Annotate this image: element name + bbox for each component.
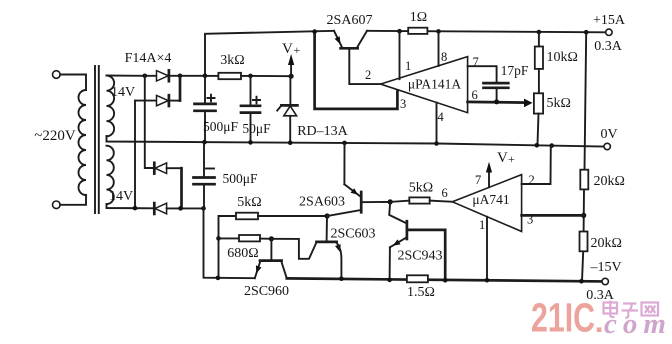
wire U1 pin6 output to pot wiper (468, 101, 526, 104)
svg-text:5kΩ: 5kΩ (547, 96, 571, 111)
top bus right section (367, 31, 606, 33)
svg-text:8: 8 (441, 50, 447, 64)
wire U2 pin2 to 0V (522, 146, 551, 184)
capacitor 500uF lower (203, 142, 205, 177)
junction pot bottom on 0V (535, 143, 540, 148)
junction -V rail corner (201, 206, 206, 211)
svg-text:0.3A: 0.3A (594, 39, 623, 54)
junction +V node (203, 74, 208, 79)
svg-text:1Ω: 1Ω (410, 10, 427, 25)
svg-text:500μF: 500μF (223, 171, 258, 186)
junction riser on bus (216, 276, 221, 281)
wire U2 pin4 to -15 bus (486, 217, 488, 280)
svg-text:–15V: –15V (589, 260, 621, 275)
transformer T1 primary winding (79, 90, 87, 195)
junction 500uF bottom on 0V (202, 140, 207, 145)
svg-text:1.5Ω: 1.5Ω (407, 285, 435, 300)
resistor 10k (538, 32, 540, 46)
junction node X (388, 199, 393, 204)
svg-text:2SC943: 2SC943 (397, 249, 442, 264)
svg-text:7: 7 (475, 173, 481, 187)
transistor Q4 2SC603 (326, 216, 328, 241)
wire D4 to -V node (167, 207, 204, 209)
svg-text:2: 2 (365, 68, 371, 82)
wire riser D3 to row4 (180, 168, 183, 208)
wire node B riser (134, 101, 136, 208)
junction 680 row riser (216, 236, 221, 241)
transformer core (94, 66, 96, 213)
junction node Y (325, 213, 330, 218)
capacitor 500uF upper (204, 76, 206, 104)
svg-text:2SC603: 2SC603 (330, 227, 375, 242)
wire D1 to +V node (169, 75, 205, 77)
terminal 0V (604, 143, 610, 149)
svg-text:RD–13A: RD–13A (297, 124, 348, 139)
wire U1 pin1 (399, 31, 401, 79)
svg-text:2SC960: 2SC960 (244, 284, 289, 299)
wire D3 to -V riser (167, 167, 182, 169)
svg-text:17pF: 17pF (501, 63, 529, 78)
svg-text:F14A×4: F14A×4 (125, 51, 172, 66)
svg-text:V: V (282, 41, 293, 57)
wire secondary bottom to D4 (107, 204, 155, 208)
junction 50uF bottom on 0V (248, 140, 253, 145)
capacitor 17pF (484, 82, 509, 85)
svg-text:1: 1 (479, 218, 485, 232)
svg-text:~220V: ~220V (34, 128, 76, 144)
wire U2 pin3 to divider (522, 214, 584, 217)
junction 960 base node (269, 236, 274, 241)
diode D3 (153, 163, 156, 174)
svg-text:2: 2 (529, 173, 535, 187)
junction -V after D4 (178, 206, 183, 211)
capacitor 50uF (250, 76, 252, 106)
svg-text:μA741: μA741 (472, 192, 509, 207)
svg-text:7: 7 (473, 55, 479, 69)
wire U path to 2SC603 collector (271, 239, 316, 259)
op-amp U1 uPA141A (381, 57, 468, 113)
svg-text:20kΩ: 20kΩ (591, 236, 622, 251)
svg-text:21IC: 21IC (531, 295, 595, 341)
svg-text:2SA603: 2SA603 (299, 195, 345, 210)
transformer secondary upper 14V (107, 76, 115, 137)
svg-text:4: 4 (438, 110, 445, 124)
wire secondary top to D1 (107, 75, 157, 77)
resistor 20k upper (580, 170, 588, 190)
wire row2 from node B riser to D2 (135, 100, 157, 102)
resistor 5k left (219, 216, 237, 278)
svg-text:20kΩ: 20kΩ (594, 174, 625, 189)
svg-text:5kΩ: 5kΩ (237, 195, 261, 210)
resistor 20k lower (580, 232, 588, 252)
svg-text:1: 1 (405, 59, 411, 73)
resistor 680 (219, 237, 240, 239)
wire D2 to riser (169, 100, 180, 102)
bottom -V bus right of 2SC960 (287, 278, 602, 281)
wire U1 pin3 (315, 32, 398, 109)
svg-text:V: V (497, 150, 508, 166)
V+ arrow upper (289, 74, 294, 79)
junction bus pin1 (397, 29, 402, 34)
op-amp U2 uA741 (452, 175, 521, 232)
svg-text:3: 3 (400, 97, 406, 111)
svg-text:3kΩ: 3kΩ (220, 53, 244, 68)
svg-text:50μF: 50μF (242, 121, 271, 136)
svg-text:14V: 14V (111, 85, 135, 100)
svg-text:+: + (508, 152, 515, 166)
svg-text:680Ω: 680Ω (227, 246, 258, 261)
junction bus right rail (584, 30, 589, 35)
wire (60, 75, 86, 91)
svg-text:+15A: +15A (593, 13, 626, 28)
diode D1 (157, 71, 169, 81)
svg-text:μPA141A: μPA141A (408, 77, 462, 92)
svg-text:500μF: 500μF (203, 119, 238, 134)
svg-text:6: 6 (442, 186, 448, 200)
junction +V after D1 (178, 74, 183, 79)
right rail (585, 32, 587, 170)
junction node B (133, 206, 138, 211)
junction pin3 on rail (581, 213, 586, 218)
transistor Q5 2SC960 (270, 239, 272, 260)
wire node A riser to D3 (145, 76, 154, 168)
svg-text:5kΩ: 5kΩ (409, 181, 433, 196)
wire +V node riser to top bus (205, 31, 334, 76)
svg-text:2SA607: 2SA607 (327, 13, 373, 28)
resistor 3k (205, 75, 218, 77)
junction bus pin8 (436, 29, 441, 34)
resistor 1ohm (408, 28, 427, 34)
resistor 5k to 741 (409, 197, 429, 203)
terminal -15 (602, 278, 608, 284)
terminal input bottom (53, 201, 61, 209)
wire Q1 base to op-amp output (349, 48, 380, 84)
wire riser D2 cathode to row1 (179, 76, 182, 101)
wire 680 to 960 base node (260, 238, 271, 240)
transistor Q6 2SC943 (389, 202, 406, 223)
wire 3k to V+ node (241, 75, 291, 77)
wire (60, 195, 86, 205)
junction 20k bottom on bus (579, 279, 584, 284)
svg-text:3: 3 (527, 213, 533, 227)
pin7 V+ arrow (488, 168, 490, 187)
svg-text:0V: 0V (600, 127, 617, 142)
junction 50uF top (248, 74, 253, 79)
svg-text:6: 6 (472, 88, 478, 102)
wire U1 pin8 (438, 31, 440, 66)
node A junction (143, 74, 148, 79)
transformer secondary lower 14V (107, 146, 114, 204)
wire U1 pin4 (436, 103, 438, 144)
wire 5k to node Y (258, 215, 327, 217)
watermark dianzi wang (604, 301, 659, 318)
resistor 1.5ohm (407, 275, 428, 282)
pot 5k (538, 69, 540, 93)
svg-text:com: com (604, 308, 672, 340)
zener RD-13A (289, 76, 291, 105)
bottom -V bus left of 2SC960 (204, 208, 255, 278)
svg-text:+: + (294, 43, 301, 57)
svg-text:14V: 14V (109, 189, 133, 204)
diode D2 (157, 95, 169, 105)
svg-text:10kΩ: 10kΩ (547, 50, 578, 65)
junction bus 10k (537, 30, 542, 35)
junction pin2 riser on 0V (549, 143, 554, 148)
diode D4 (153, 203, 156, 214)
terminal input top (53, 71, 61, 79)
wire 0V line from center tap (107, 136, 605, 147)
transistor Q3 2SA603 (342, 141, 347, 146)
terminal +15 (606, 29, 612, 35)
wire U1 pin7 (468, 66, 497, 83)
